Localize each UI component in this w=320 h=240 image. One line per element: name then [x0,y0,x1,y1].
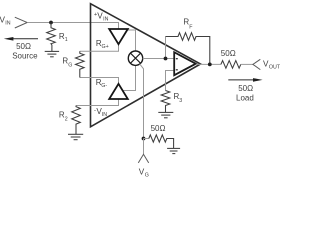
op-amp U2 output stage [174,52,196,75]
op-amp noninverting mark [176,69,178,71]
op-amp inverting mark [176,58,178,60]
svg-text:IN: IN [103,16,108,22]
buffer U1b (feedback buffer, points up) [109,84,128,99]
svg-text:50Ω: 50Ω [151,124,166,133]
resistor 50ohm gain [149,135,174,149]
node VG label [139,167,149,178]
svg-text:G+: G+ [102,44,109,50]
svg-text:Load: Load [236,94,254,103]
node junction dot at RF output [208,63,212,67]
source VG input symbol [138,154,148,163]
ground under R1 [45,51,59,56]
svg-text:G: G [68,62,72,68]
resistor R3 [161,91,170,113]
wire multiplier to opamp [143,58,175,60]
label -VIN pin [94,107,107,118]
label R2 [59,111,68,123]
label R3 [174,92,183,104]
svg-text:3: 3 [179,98,182,104]
wire VIN to buffer1 input [27,23,118,30]
label RG- pin [96,78,108,89]
svg-text:Source: Source [12,51,38,60]
node junction dot at opamp inverting input [164,57,168,61]
svg-text:OUT: OUT [269,65,280,71]
wire buffer2 to multiplier bottom [122,65,135,90]
50ohm load arrow [228,78,262,82]
resistor RF with feedback wires [166,33,210,65]
node junction dot at R1 [49,21,53,25]
wire opamp output [196,63,221,65]
label +VIN pin [94,11,109,22]
svg-text:2: 2 [65,117,68,123]
wire to VOUT [241,63,253,65]
50ohm source arrow [4,37,38,41]
wire buffer1 to multiplier [128,30,136,51]
svg-text:IN: IN [102,112,107,118]
node VOUT label [263,59,281,70]
wire opamp noninverting input to R3 [166,71,175,91]
wire RF left leg [165,37,167,59]
wire VG junction to gain resistor [144,138,149,140]
label 50ohm load [236,84,254,103]
label RG+ pin [96,39,109,50]
svg-text:1: 1 [65,37,68,43]
ground under R3 [158,112,173,117]
svg-text:50Ω: 50Ω [238,84,253,93]
node junction dot at VG [142,137,146,141]
node VOUT output symbol [253,59,260,69]
multiplier cell [128,51,142,65]
svg-text:G: G [145,172,149,178]
label 50ohm source [12,42,38,60]
label R1 [59,32,68,43]
ground at gain resistor [167,148,180,153]
wire RG- net [80,78,119,85]
big triangle VCA body [91,4,201,127]
resistor 50ohm output [221,61,241,69]
resistor R2 [72,106,81,135]
svg-text:50Ω: 50Ω [16,42,31,51]
svg-text:IN: IN [5,21,10,27]
resistor RG [76,51,85,77]
wire VG stem [143,139,145,155]
label RG [62,57,72,69]
wire -VIN net [76,99,119,106]
svg-text:G-: G- [101,83,107,89]
ground under R2 [68,134,83,139]
node VIN label [0,16,11,27]
source VIN input symbol [15,17,27,28]
buffer U1a (input buffer, points down) [109,29,128,44]
resistor R1 [47,23,56,52]
svg-text:50Ω: 50Ω [221,49,236,58]
wire RG+ net [80,44,119,51]
wire multiplier to VG line [140,64,144,139]
label RF [183,18,193,31]
